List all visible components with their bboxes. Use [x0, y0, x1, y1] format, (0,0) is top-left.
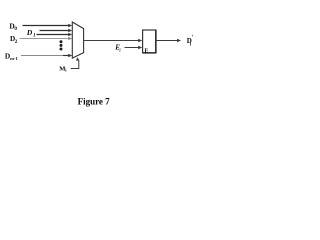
mux output arrowhead	[138, 39, 142, 42]
wire unlabeled input	[37, 34, 70, 36]
svg-text:Figure 7: Figure 7	[78, 96, 111, 106]
enable arrow wire	[125, 47, 140, 49]
latch box thick right edge	[155, 30, 157, 53]
arrowhead unlabeled input	[68, 33, 72, 36]
mux output wire	[84, 40, 140, 42]
select wire	[71, 59, 79, 69]
arrowhead D1	[68, 29, 72, 32]
svg-text:D: D	[26, 28, 33, 37]
latch box	[143, 30, 156, 53]
svg-text:m-1: m-1	[10, 56, 18, 61]
svg-text:E: E	[144, 48, 148, 54]
wire Dm-1 (faint)	[21, 55, 64, 57]
wire Dm-1 dark end	[63, 55, 70, 57]
svg-text:i: i	[119, 48, 121, 53]
enable arrowhead	[138, 46, 142, 49]
ellipsis dot 1	[60, 40, 63, 43]
svg-text:′: ′	[192, 35, 194, 41]
wire D1	[40, 30, 70, 32]
svg-text:1: 1	[33, 33, 36, 39]
wire D2 (faint)	[20, 38, 70, 40]
box output arrowhead	[177, 39, 181, 42]
svg-text:0: 0	[14, 26, 17, 32]
ellipsis dot 2	[60, 44, 63, 47]
wire D0	[23, 25, 70, 27]
arrowhead D0	[68, 24, 72, 27]
multiplexer trapezoid	[72, 22, 83, 58]
svg-text:i: i	[65, 68, 67, 73]
ellipsis dot 3	[60, 48, 63, 51]
arrowhead D2 (faint)	[68, 37, 72, 40]
select arrowhead	[76, 57, 79, 61]
arrowhead Dm-1	[68, 54, 72, 57]
box output wire	[157, 40, 179, 42]
svg-text:2: 2	[15, 39, 18, 45]
latch box thick bottom edge	[143, 52, 157, 54]
